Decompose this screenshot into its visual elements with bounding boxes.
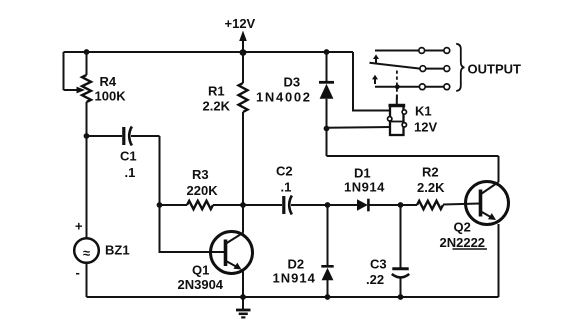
potentiometer R4 <box>64 52 92 102</box>
svg-text:12V: 12V <box>414 120 437 135</box>
wire Q2 collector <box>498 156 500 182</box>
svg-text:1N4002: 1N4002 <box>256 90 312 105</box>
svg-text:D3: D3 <box>284 75 301 90</box>
svg-text:+12V: +12V <box>225 16 256 31</box>
svg-text:Q2: Q2 <box>454 220 471 235</box>
wire Q1 collector <box>242 205 244 233</box>
resistor R1 <box>239 52 248 205</box>
transistor Q1 <box>211 232 253 274</box>
+12V supply arrow <box>239 31 247 53</box>
svg-text:.1: .1 <box>281 180 292 195</box>
output brace <box>456 44 464 91</box>
wire C1 to R3 left node <box>159 136 161 205</box>
svg-text:1N914: 1N914 <box>273 271 316 286</box>
relay contact pole 1 <box>375 48 450 54</box>
relay coil K1 <box>388 99 407 136</box>
junction D2 node <box>325 202 331 208</box>
transistor Q2 <box>466 182 509 225</box>
wire top rail <box>64 51 354 53</box>
wire bottom rail <box>87 296 499 298</box>
svg-text:K1: K1 <box>415 104 432 119</box>
svg-text:OUTPUT: OUTPUT <box>468 62 522 77</box>
svg-text:D2: D2 <box>288 257 305 272</box>
svg-text:2.2K: 2.2K <box>417 180 445 195</box>
svg-text:2.2K: 2.2K <box>203 99 231 114</box>
svg-text:BZ1: BZ1 <box>105 243 130 258</box>
junction R4 top node <box>84 49 90 55</box>
svg-text:-: - <box>76 265 80 280</box>
svg-text:R3: R3 <box>192 167 209 182</box>
svg-text:C1: C1 <box>120 149 137 164</box>
svg-text:R2: R2 <box>422 165 439 180</box>
svg-text:Q1: Q1 <box>192 263 209 278</box>
svg-text:220K: 220K <box>187 183 219 198</box>
svg-text:R4: R4 <box>100 74 117 89</box>
ground <box>236 297 251 317</box>
mechanical link to coil (dashed) <box>396 71 398 100</box>
svg-text:≈: ≈ <box>83 246 90 261</box>
contact arrow 1 <box>373 54 379 63</box>
svg-text:2N3904: 2N3904 <box>178 277 224 292</box>
svg-text:C3: C3 <box>370 257 387 272</box>
junction C3 node <box>398 202 404 208</box>
capacitor C1 <box>87 127 160 146</box>
svg-text:.1: .1 <box>125 165 136 180</box>
svg-text:C2: C2 <box>276 164 293 179</box>
junction C3 ground node <box>398 294 404 300</box>
svg-text:D1: D1 <box>354 166 371 181</box>
wire D3 node down <box>326 129 328 157</box>
relay contact pole 3 <box>375 84 450 90</box>
capacitor C2 <box>243 196 328 215</box>
svg-text:2N2222: 2N2222 <box>440 235 486 250</box>
wire BZ1 to bottom rail <box>86 263 88 297</box>
junction D3 top node <box>324 49 330 55</box>
wire C1 node to BZ1 <box>86 136 88 239</box>
junction Q1 collector node <box>240 202 246 208</box>
junction D3 bottom node <box>324 126 330 132</box>
resistor R2 <box>401 201 481 209</box>
svg-text:1N914: 1N914 <box>344 180 385 195</box>
svg-text:100K: 100K <box>95 89 127 104</box>
svg-text:.22: .22 <box>366 272 384 287</box>
wire R4 to C1 node <box>86 102 88 136</box>
resistor R3 <box>160 201 244 209</box>
wire Q1 emitter <box>242 272 244 298</box>
label 2N2222 <box>440 235 488 250</box>
wire D3 node to relay coil lower pin <box>327 126 391 129</box>
junction +12V tap <box>240 49 247 56</box>
junction armature link node <box>395 84 400 89</box>
buzzer BZ1 <box>74 238 99 263</box>
wire to Q2 collector <box>327 155 499 157</box>
junction R3 left node <box>157 202 163 208</box>
junction C1 node <box>84 133 90 139</box>
diode D1 <box>328 199 401 212</box>
svg-text:R1: R1 <box>208 84 225 99</box>
relay armature pole 2 (moving contact) <box>370 63 450 72</box>
junction ground node <box>240 294 246 300</box>
wire Q2 emitter <box>498 224 500 297</box>
diode D2 <box>321 205 333 297</box>
diode D3 <box>319 52 334 129</box>
wire top rail to relay coil upper pin <box>353 52 390 111</box>
contact arrow 2 <box>372 75 378 84</box>
wire Q1 base feed <box>160 205 226 252</box>
svg-text:+: + <box>75 219 83 234</box>
capacitor C3 <box>392 205 409 297</box>
junction D2 ground node <box>325 294 331 300</box>
